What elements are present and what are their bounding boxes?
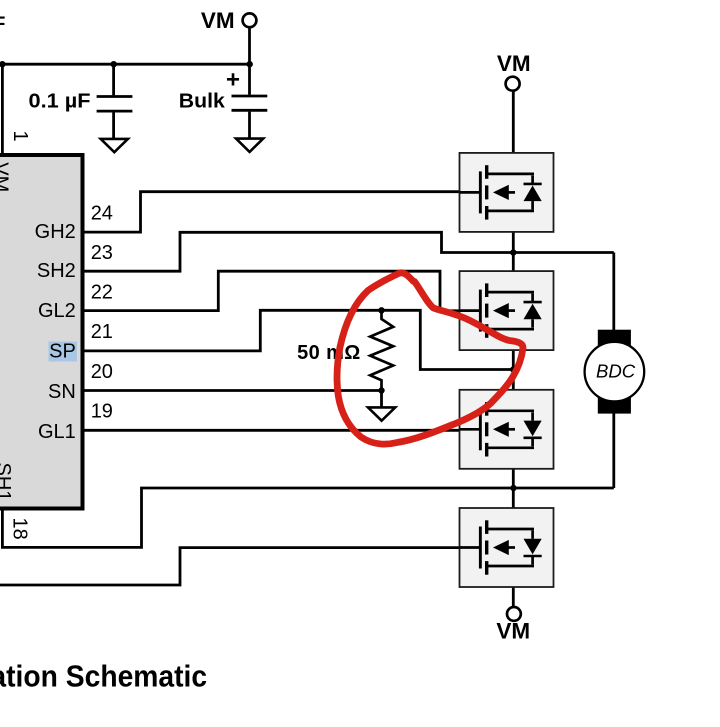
svg-text:VM: VM [497, 51, 531, 76]
wire main rail segment 1 (VM to FET1 drain) [512, 91, 515, 174]
wire main rail segment 4 (FET3 drain to FET4 source/body) [512, 448, 515, 548]
svg-text:SH2: SH2 [37, 260, 76, 282]
svg-text:F: F [0, 13, 5, 34]
capacitor C1 0.1 uF [112, 64, 115, 95]
wire SP pin 21 route [85, 310, 514, 369]
svg-text:1: 1 [9, 131, 31, 142]
wire motor branch top [612, 253, 615, 331]
ground (C2) [236, 139, 263, 152]
svg-text:50 mΩ: 50 mΩ [297, 342, 361, 364]
wire motor branch bottom [612, 413, 615, 489]
svg-text:GH2: GH2 [35, 221, 76, 243]
svg-text:24: 24 [91, 202, 113, 224]
svg-text:SH1: SH1 [0, 463, 14, 502]
node resistor bottom junction [378, 387, 384, 393]
node SH1 junction [510, 485, 516, 491]
wire GL2 pin 22 route [85, 271, 481, 311]
wire GL1 pin 19 to FET3 gate [85, 429, 481, 432]
svg-text:VM: VM [201, 8, 235, 33]
transistor Q4 high-side half-bridge 1 (mirrored) [460, 508, 554, 587]
wire VM terminal to bus [248, 27, 251, 64]
svg-text:GL1: GL1 [38, 421, 76, 443]
wire pin1 vertical into IC [1, 64, 4, 155]
svg-text:SN: SN [48, 381, 76, 403]
svg-text:22: 22 [91, 282, 113, 304]
svg-text:BDC: BDC [596, 361, 636, 382]
svg-text:SP: SP [49, 340, 76, 362]
svg-text:VM: VM [496, 619, 530, 644]
red annotation loop around sense resistor [337, 273, 523, 444]
svg-text:Application Schematic: Application Schematic [0, 660, 207, 694]
wire VM top-left horizontal bus [0, 63, 250, 66]
resistor R1 50 mOhm sense [370, 310, 393, 390]
wire SH1 pin 18 route [2, 488, 613, 547]
motor BDC terminal block bottom [598, 398, 631, 414]
node pin1 junction [0, 61, 6, 67]
transistor Q1 high-side half-bridge 2 [460, 153, 554, 232]
node resistor top junction [378, 307, 384, 313]
node cap C1 junction [111, 61, 117, 67]
wire GH1 route (from cropped pin) [0, 548, 481, 585]
wire SN pin 20 to sense resistor bottom [85, 389, 382, 392]
svg-text:23: 23 [91, 242, 113, 264]
wire main rail segment 3 (FET2 body/source to FET3 source/body) [512, 311, 515, 430]
svg-text:18: 18 [9, 518, 31, 540]
transistor Q3 low-side half-bridge 1 (mirrored) [460, 390, 554, 469]
svg-text:GL2: GL2 [38, 300, 76, 322]
svg-text:Bulk: Bulk [179, 90, 226, 112]
svg-text:19: 19 [91, 401, 113, 423]
motor BDC body [585, 342, 645, 402]
wire resistor to ground [380, 391, 383, 408]
node SP (highlighted) [49, 342, 78, 362]
wire main rail segment 2 (FET1 body/source to FET2 drain) [512, 192, 515, 292]
op-amp/IC U1 gate driver block [0, 155, 83, 509]
VM terminal (bottom of rail) [507, 607, 521, 621]
wire GH2 pin 24 stub [85, 192, 481, 232]
svg-text:VM: VM [0, 162, 12, 192]
node SH2 junction [510, 249, 516, 255]
node sense junction [510, 366, 516, 372]
svg-text:20: 20 [91, 361, 113, 383]
ground (R1) [368, 407, 395, 420]
svg-text:21: 21 [91, 321, 113, 343]
wire SH2 pin 23 route [85, 232, 614, 271]
motor BDC terminal block top [598, 330, 631, 346]
svg-text:+: + [226, 67, 240, 94]
wire main rail segment 5 (FET4 drain to VM bottom) [512, 566, 515, 607]
node bulk cap junction [247, 61, 253, 67]
ground (C1) [101, 139, 128, 152]
capacitor C2 Bulk [248, 64, 251, 95]
svg-text:0.1 µF: 0.1 µF [29, 91, 91, 113]
transistor Q2 low-side half-bridge 2 [460, 271, 554, 350]
